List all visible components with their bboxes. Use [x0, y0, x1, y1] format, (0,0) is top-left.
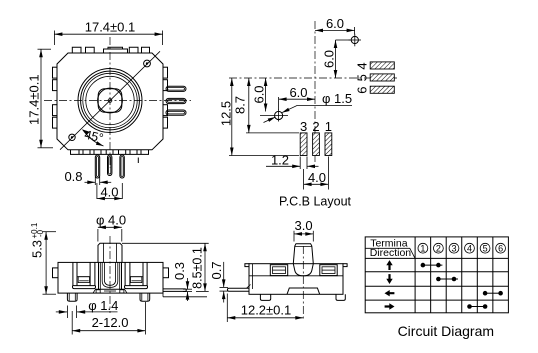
dim 6.0 mid horizontal text	[289, 85, 307, 100]
dim 6.0 top text	[326, 16, 344, 31]
dim 0.7 arrows	[220, 262, 229, 303]
svg-text:12.2±0.1: 12.2±0.1	[241, 302, 292, 317]
svg-text:5.3: 5.3	[30, 240, 45, 258]
centerline horizontal	[44, 100, 191, 102]
dim phi1.4 text	[88, 298, 118, 313]
side left pin	[227, 285, 250, 292]
dim 0.3 text	[172, 262, 187, 280]
svg-text:0.7: 0.7	[209, 261, 224, 279]
front left clip	[73, 262, 96, 288]
side shaft	[293, 244, 313, 264]
45 deg label	[83, 128, 105, 146]
45 deg arc and arrows	[83, 130, 104, 147]
side centerline	[302, 246, 304, 321]
svg-text:0.3: 0.3	[172, 262, 187, 280]
direction arrow down	[386, 274, 392, 284]
dim 3.0 text	[295, 218, 313, 233]
direction arrow up	[386, 260, 392, 270]
header split line	[365, 248, 415, 258]
svg-text:4: 4	[355, 62, 370, 69]
direction arrow left	[385, 290, 395, 296]
left side tabs	[53, 67, 58, 128]
dim phi1.4 arrows	[56, 306, 118, 319]
bottom tab band	[71, 150, 149, 155]
dim 8.7 line	[246, 78, 299, 133]
CIRCUIT DIAGRAM GROUP	[365, 237, 508, 339]
header Termina	[370, 238, 408, 250]
pcb horizontal centerline	[229, 77, 397, 79]
svg-text:8.5±0.1: 8.5±0.1	[191, 247, 205, 289]
dim 6.0 top line	[315, 27, 355, 35]
dim 8.7 text	[233, 96, 248, 114]
svg-text:3.0: 3.0	[295, 218, 313, 233]
right side tabs	[163, 67, 168, 128]
dim 0.3 arrows	[183, 278, 192, 301]
svg-text:3: 3	[300, 119, 307, 134]
svg-text:-0: -0	[36, 229, 45, 237]
dim 17.4 horizontal line	[54, 31, 162, 46]
svg-text:6.0: 6.0	[251, 85, 266, 103]
svg-text:4: 4	[467, 244, 472, 254]
dim 6.0 left vertical text	[251, 85, 266, 103]
svg-text:φ 4.0: φ 4.0	[96, 213, 126, 228]
svg-text:17.4±0.1: 17.4±0.1	[27, 74, 42, 125]
svg-text:0.8: 0.8	[64, 169, 82, 184]
svg-text:φ 1.5: φ 1.5	[322, 91, 352, 106]
table grid	[365, 237, 508, 313]
dim 8.5 line	[122, 243, 209, 291]
dim 4.0 text	[308, 170, 326, 185]
bottom-right small tab	[137, 158, 139, 164]
body outline octagon	[57, 53, 163, 150]
side body	[245, 264, 347, 295]
front body rect	[58, 262, 163, 293]
bottom pads 3 2 1	[300, 133, 332, 156]
phi 1.5 text	[322, 91, 352, 106]
front right clip	[125, 262, 148, 288]
dim 17.4 vertical line	[38, 49, 54, 148]
dim 17.4 horizontal text	[85, 20, 136, 35]
dim 17.4 vertical text	[27, 74, 42, 125]
TOP VIEW GROUP	[27, 20, 192, 201]
dim 0.8 arrows	[85, 177, 112, 186]
top tab band	[72, 47, 149, 53]
dim 0.7 text	[209, 261, 224, 279]
side right clip block	[320, 265, 337, 276]
front shaft	[98, 243, 122, 262]
dim phi4.0 line	[98, 226, 122, 242]
dim 5.3 text	[30, 222, 46, 258]
svg-text:2-12.0: 2-12.0	[92, 315, 129, 330]
caption Circuit Diagram	[398, 323, 494, 339]
svg-text:6: 6	[355, 86, 370, 93]
front right ear	[163, 268, 169, 278]
svg-text:φ 1.4: φ 1.4	[88, 298, 118, 313]
front right pin	[163, 289, 207, 297]
SIDE VIEW GROUP	[227, 218, 347, 322]
svg-text:6: 6	[498, 244, 503, 254]
front left ear	[53, 268, 59, 278]
phi 1.5 hole	[260, 110, 288, 122]
front right foot	[140, 293, 150, 301]
dim 1.2 text	[271, 153, 289, 168]
svg-text:6.0: 6.0	[321, 50, 336, 68]
contact row1 1-2	[421, 263, 443, 268]
side shaft base	[293, 264, 313, 276]
svg-text:1: 1	[420, 244, 425, 254]
circled terminal numbers	[418, 243, 506, 253]
svg-text:5: 5	[483, 244, 488, 254]
mounting hole bottom-left	[69, 134, 75, 140]
dim 6.0 right vertical text	[321, 50, 336, 68]
dim 4.0 arrows	[304, 157, 329, 190]
mounting hole top-right	[144, 60, 151, 67]
dim 4.0 text	[100, 184, 118, 199]
PCB LAYOUT GROUP	[218, 16, 397, 208]
dim 4.0 arrows	[97, 183, 122, 200]
contact row3 5-6	[483, 291, 503, 296]
side left foot	[260, 294, 270, 300]
svg-text:5: 5	[355, 74, 370, 81]
dim 2-12.0 text	[92, 315, 129, 330]
dim 5.3 line	[43, 232, 57, 295]
pcb vertical centerline	[314, 21, 316, 162]
dim 6.0 left vertical line	[264, 78, 268, 112]
svg-text:2: 2	[312, 119, 319, 134]
dim 12.2 text	[241, 302, 292, 317]
right pads 4 5 6	[370, 62, 394, 93]
caption P.C.B Layout	[279, 194, 352, 208]
dim 2-12.0 line	[72, 302, 145, 335]
dim 8.5 text	[191, 247, 205, 289]
dim 1.2 arrows	[266, 157, 319, 170]
side bottom tab	[287, 288, 320, 294]
side left clip block	[270, 265, 287, 276]
dim 12.5 line	[229, 78, 299, 156]
center circles	[78, 69, 142, 133]
direction arrow right	[385, 303, 395, 309]
contact row4 4-5	[467, 304, 487, 309]
contact row2 2-3	[436, 277, 458, 282]
svg-text:1.2: 1.2	[271, 153, 289, 168]
dim 12.2 line	[227, 294, 303, 323]
FRONT VIEW GROUP	[30, 213, 229, 335]
svg-text:17.4±0.1: 17.4±0.1	[85, 20, 136, 35]
pad labels 4 5 6	[355, 62, 370, 93]
front left foot	[67, 293, 77, 301]
centerline vertical	[109, 37, 111, 168]
svg-text:P.C.B Layout: P.C.B Layout	[279, 194, 352, 208]
svg-text:6.0: 6.0	[289, 85, 307, 100]
svg-text:8.7: 8.7	[233, 96, 248, 114]
dim 3.0 line	[294, 231, 313, 242]
svg-text:Circuit Diagram: Circuit Diagram	[398, 323, 494, 339]
dim phi4.0 text	[96, 213, 126, 228]
side right foot	[336, 294, 345, 300]
pad labels 3 2 1	[300, 119, 332, 134]
svg-text:3: 3	[451, 244, 456, 254]
header Direction	[370, 247, 412, 259]
front centerline	[109, 236, 111, 313]
dim 6.0 mid horizontal line	[279, 97, 315, 110]
dim 0.8 text	[64, 169, 82, 184]
dim 6.0 right vertical line	[334, 40, 351, 78]
svg-text:1: 1	[325, 119, 332, 134]
diagonal 45 line	[60, 51, 160, 149]
phi 1.5 leader arrows	[264, 106, 353, 123]
svg-text:Direction: Direction	[370, 247, 412, 259]
front center housing	[99, 262, 122, 289]
svg-text:6.0: 6.0	[326, 16, 344, 31]
front base strip	[93, 289, 127, 293]
mount hole cross top-right	[349, 34, 362, 47]
svg-text:2: 2	[436, 244, 441, 254]
right pins x3	[166, 86, 186, 115]
svg-text:12.5: 12.5	[218, 101, 233, 126]
bottom pins x3	[95, 155, 124, 178]
dim 12.5 text	[218, 101, 233, 126]
